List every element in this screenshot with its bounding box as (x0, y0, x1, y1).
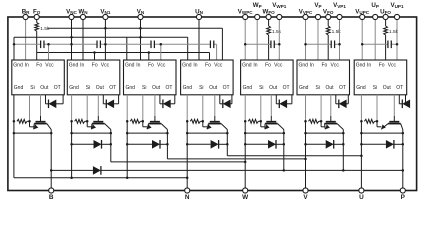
svg-text:Gnd: Gnd (242, 63, 252, 69)
brake driver gnd vertical (emitter return) (13, 95, 15, 178)
svg-text:VP: VP (314, 2, 321, 9)
N-side Vcc rail (gray) (14, 43, 217, 45)
capacitor C3 (driver3 supply) (152, 40, 154, 49)
junction supply link left (244, 43, 247, 46)
sense wire Si (gray) of driver1 (29, 95, 31, 122)
svg-text:OT: OT (339, 85, 346, 91)
terminal VN1 circle (103, 14, 108, 19)
terminal VNC circle (69, 14, 74, 19)
anode wire of freewheel diode D3 (127, 143, 152, 145)
svg-text:VUP1: VUP1 (390, 2, 404, 9)
emitter tie wire of Q6 (306, 132, 344, 134)
Fo bus corner to driver4 Fo (209, 53, 211, 61)
phase vertical from driver7 Gnd down to output terminal (360, 95, 362, 122)
terminal N (185, 188, 190, 193)
svg-text:Gnd: Gnd (299, 63, 309, 69)
svg-text:OT: OT (166, 85, 173, 91)
sense wire Si (gray) of driver2 (86, 95, 88, 122)
svg-text:1.5k: 1.5k (40, 26, 50, 32)
terminal VN circle (138, 14, 143, 19)
N-side ground rail (14, 36, 188, 38)
svg-text:OT: OT (223, 85, 230, 91)
phase rail U (Q4 collector to U terminal) (227, 155, 361, 157)
svg-text:Vcc: Vcc (214, 63, 223, 69)
resistor R1 (emitter sense shunt) (17, 119, 27, 123)
junction sense node (86, 120, 89, 123)
junction supply link left (304, 43, 307, 46)
junction shunt left (304, 120, 307, 123)
transistor Q7 (IGBT) (377, 121, 403, 129)
wire FO resistor to driver1 Fo pin (36, 31, 38, 60)
supply rail VN (N-side) (48, 27, 223, 29)
svg-text:Out: Out (152, 85, 161, 91)
wire FO terminal down to 1.5k resistor (36, 17, 38, 23)
anode wire of freewheel diode D2 (72, 143, 94, 145)
svg-text:WP: WP (253, 2, 262, 9)
svg-text:VVP1: VVP1 (333, 2, 346, 9)
svg-text:Fo: Fo (148, 63, 154, 69)
terminal VP circle (315, 14, 320, 19)
terminal VUPC circle (360, 14, 365, 19)
resistor R7 (emitter sense shunt) (364, 119, 374, 123)
emitter tie wire of Q1 (14, 132, 51, 134)
phase rail V (Q3 collector to V terminal) (167, 158, 305, 160)
diode D6a (OT clamp) under driver6 (339, 100, 347, 109)
cathode wire of freewheel diode D6 (333, 143, 343, 145)
cathode wire of freewheel diode D2 (101, 143, 111, 145)
terminal UN circle (196, 14, 201, 19)
terminal VVPC circle (303, 14, 308, 19)
collector vertical of Q7 down through P bus to P terminal (402, 130, 404, 191)
svg-text:Fo: Fo (265, 63, 271, 69)
anode wire of freewheel diode D4 (187, 143, 210, 145)
wire OT pin stub of driver2 (114, 103, 119, 105)
gnd rail corner to driver4 Gnd (187, 37, 189, 60)
wire OT pin stub of driver6 (346, 103, 348, 105)
sense wire Si (gray) of driver6 (320, 95, 322, 122)
collector vertical of Q3 down to phase rail (166, 130, 168, 159)
junction shunt left (70, 120, 73, 123)
terminal WFO circle (266, 14, 271, 19)
junction sense node (260, 120, 263, 123)
wire VUPC (gray) down to driver7 Gnd (361, 17, 363, 60)
transistor Q1 (IGBT) (30, 121, 52, 129)
gate wire Out of driver1 (40, 95, 42, 116)
N terminal drop from N bus (186, 177, 189, 180)
terminal U (359, 188, 364, 193)
capacitor C5 (driver5 bootstrap supply) (272, 40, 274, 49)
wire driver2 Out stub to OT diode (102, 95, 104, 104)
junction supply link right (278, 43, 281, 46)
junction shunt left (126, 120, 129, 123)
transistor Q5 (IGBT) (261, 121, 284, 129)
gate wire Out of driver5 (270, 95, 272, 116)
svg-text:In: In (25, 63, 29, 69)
svg-text:In: In (367, 63, 371, 69)
wire VP input (gray) to driver6 In (317, 17, 319, 60)
phase vertical from driver6 Gnd down to output terminal (305, 95, 307, 122)
terminal VWP1 circle (277, 14, 282, 19)
wire WN input to driver2 In (82, 17, 84, 60)
terminal WP circle (255, 14, 260, 19)
wire driver5 Out stub to OT diode (275, 95, 277, 104)
svg-text:Gnd: Gnd (69, 85, 79, 91)
wire VFO resistor to driver6 Fo (327, 35, 329, 60)
wire OT pin stub of driver1 (56, 103, 63, 105)
diode D7a (OT clamp) under driver7 (402, 100, 410, 109)
wire driver3 Out stub to OT diode (159, 95, 161, 104)
junction supply link left (361, 43, 364, 46)
resistor R3 (emitter sense shunt) (130, 119, 140, 123)
svg-text:Gnd: Gnd (243, 85, 253, 91)
collector vertical of Q2 down to phase rail (110, 130, 112, 162)
resistor R2 (emitter sense shunt) (75, 119, 85, 123)
svg-text:In: In (136, 63, 140, 69)
terminal VFO circle (326, 14, 331, 19)
wire VWPC (gray) down to driver5 Gnd (244, 17, 246, 60)
junction Vcc rail / VN1 (104, 43, 107, 46)
driver IC U6 box (297, 60, 350, 95)
driver IC U3 box (124, 60, 177, 95)
Fo bus stub to driver3 Fo (148, 53, 150, 61)
wire UP input (gray) to driver7 In (374, 17, 376, 60)
diode D3a (OT clamp) under driver3 (163, 100, 171, 109)
capacitor C1 (driver1 supply) (41, 40, 43, 49)
emitter tie wire of Q3 (127, 132, 167, 134)
svg-text:Vcc: Vcc (388, 63, 397, 69)
collector vertical of Q5 down to P bus (283, 130, 285, 171)
wire WFO down to 1.5k resistor (268, 17, 270, 26)
sense wire Si (gray) of driver7 (376, 95, 378, 122)
svg-text:V: V (303, 194, 308, 201)
anode wire of freewheel diode D7 (361, 143, 386, 145)
resistor R6 (emitter sense shunt) (309, 119, 319, 123)
gate wire Out of driver7 (393, 95, 395, 116)
svg-text:U: U (359, 194, 364, 201)
svg-text:Fo: Fo (322, 63, 328, 69)
wire UFO down to 1.5k resistor (385, 17, 387, 26)
sense wire Si (gray) of driver5 (260, 95, 262, 122)
wire driver4 Out stub to OT diode (219, 95, 221, 104)
wire VVPC (gray) down to driver6 Gnd (305, 17, 307, 60)
svg-text:Vcc: Vcc (157, 63, 166, 69)
svg-text:In: In (253, 63, 257, 69)
terminal WN circle (80, 14, 85, 19)
emitter tie wire of Q2 (72, 132, 111, 134)
svg-text:In: In (193, 63, 197, 69)
driver3 gnd vertical down to N bus (126, 95, 128, 122)
wire VNC to driver2 Gnd (71, 17, 73, 60)
terminal FO circle (34, 14, 39, 19)
terminal V (303, 188, 308, 193)
svg-text:Si: Si (142, 85, 146, 91)
Fo bus rail (N-side fault outputs) (37, 52, 210, 54)
Vcc rail corner (gray) to driver4 Vcc (216, 44, 218, 60)
svg-text:N: N (185, 194, 190, 201)
junction sense node (376, 120, 379, 123)
resistor R4 (emitter sense shunt) (190, 119, 200, 123)
wire OT pin stub of driver7 (406, 103, 410, 105)
N bus corner up to driver1 gnd (70, 177, 73, 180)
cathode wire of freewheel diode D7 (393, 143, 403, 145)
gnd rail corner to driver1 Gnd (13, 37, 15, 60)
terminal UP circle (373, 14, 378, 19)
junction supply link right (396, 43, 399, 46)
Fo bus stub to driver2 Fo (94, 53, 96, 61)
capacitor C2 (driver2 supply) (98, 40, 100, 49)
svg-text:OT: OT (109, 85, 116, 91)
terminal B (49, 188, 54, 193)
P bus wire from brake collector to P terminal (51, 169, 88, 171)
diode D2 (freewheel) of Q2 (94, 140, 102, 149)
gate wire Out of driver4 (214, 95, 216, 116)
diode D4 (freewheel) of Q4 (211, 140, 219, 149)
anode wire of freewheel diode D5 (245, 143, 268, 145)
svg-text:Gnd: Gnd (182, 63, 192, 69)
junction gnd rail / VNC (70, 36, 73, 39)
supply link (gray) VUP1 to VUPC (362, 43, 397, 45)
svg-text:Vcc: Vcc (101, 63, 110, 69)
terminal VUP1 circle (394, 14, 399, 19)
wire WFO resistor to driver5 Fo (268, 35, 270, 60)
emitter tie wire of Q7 (361, 132, 402, 134)
wire VFO down to 1.5k resistor (327, 17, 329, 26)
transistor Q3 (IGBT) (143, 121, 168, 129)
gate wire Out of driver6 (330, 95, 332, 116)
svg-text:Gnd: Gnd (356, 63, 366, 69)
N bus wire collecting N-side emitters (14, 177, 187, 179)
svg-text:Si: Si (373, 85, 377, 91)
resistor 1.5k on FO line (35, 23, 39, 32)
junction gnd rail / VN (139, 36, 142, 39)
diode D5 (freewheel) of Q5 (268, 140, 276, 149)
wire UFO resistor to driver7 Fo (385, 35, 387, 60)
wire VN1 to driver2 Vcc (104, 17, 106, 60)
diode D1 (brake freewheel to P) (93, 166, 101, 175)
driver IC U4 box (181, 60, 234, 95)
junction shunt left (244, 120, 247, 123)
svg-text:Vcc: Vcc (331, 63, 340, 69)
Vcc stub (gray) to driver3 Vcc (160, 44, 162, 60)
svg-text:Fo: Fo (92, 63, 98, 69)
terminal VVP1 circle (337, 14, 342, 19)
terminal UFO circle (383, 14, 388, 19)
svg-text:Gnd: Gnd (183, 85, 193, 91)
svg-text:Fo: Fo (205, 63, 211, 69)
svg-text:Out: Out (326, 85, 335, 91)
driver4 gnd vertical down to N bus (186, 95, 188, 122)
svg-text:W: W (242, 194, 249, 201)
junction shunt left (13, 120, 16, 123)
svg-text:OT: OT (54, 85, 61, 91)
phase rail W (Q2 collector to W terminal) (111, 161, 245, 163)
wire BR input (gray) to driver1 In (25, 17, 27, 60)
junction Vcc rail / VNC (70, 43, 73, 46)
resistor 1.5k on WFO line (267, 26, 271, 35)
gate wire Out of driver2 (97, 95, 99, 116)
collector vertical of Q4 down to phase rail (226, 130, 228, 156)
svg-text:Si: Si (30, 85, 34, 91)
cathode wire of freewheel diode D3 (159, 143, 167, 145)
junction sense node (28, 120, 31, 123)
supply rail corner to driver4 Vcc (221, 28, 223, 60)
transistor Q4 (IGBT) (203, 121, 228, 129)
junction supply link right (338, 43, 341, 46)
svg-text:In: In (80, 63, 84, 69)
diode D2a (OT clamp) under driver2 (106, 100, 114, 109)
junction sense node (142, 120, 145, 123)
svg-text:Si: Si (86, 85, 90, 91)
svg-text:Out: Out (209, 85, 218, 91)
svg-text:Gnd: Gnd (299, 85, 309, 91)
svg-text:Gnd: Gnd (356, 85, 366, 91)
svg-text:B: B (49, 194, 54, 201)
junction sense node (320, 120, 323, 123)
svg-text:VWP1: VWP1 (272, 2, 287, 9)
driver IC U7 box (354, 60, 407, 95)
diode D5a (OT clamp) under driver5 (279, 100, 287, 109)
wire VUP1 (gray) to driver7 Vcc (396, 17, 398, 60)
resistor 1.5k on VFO line (326, 26, 330, 35)
svg-text:Out: Out (383, 85, 392, 91)
gate wire Out of driver3 (154, 95, 156, 116)
wire OT pin stub of driver5 (287, 103, 292, 105)
svg-text:Out: Out (269, 85, 278, 91)
svg-text:In: In (310, 63, 314, 69)
svg-text:Fo: Fo (36, 63, 42, 69)
wire driver6 Out stub to OT diode (335, 95, 337, 104)
svg-text:Gnd: Gnd (69, 63, 79, 69)
sense wire Si (gray) of driver3 (142, 95, 144, 122)
svg-text:Si: Si (316, 85, 320, 91)
anode wire of freewheel diode D6 (306, 143, 326, 145)
junction Vcc rail start (13, 43, 16, 46)
svg-text:Gnd: Gnd (125, 63, 135, 69)
capacitor C6 (driver6 bootstrap supply) (332, 40, 334, 49)
wire driver1 Out stub to OT diode (45, 95, 47, 104)
wire UN input to driver4 In (198, 17, 200, 60)
cathode wire of freewheel diode D4 (218, 143, 227, 145)
svg-text:Vcc: Vcc (45, 63, 54, 69)
svg-text:Si: Si (259, 85, 263, 91)
diode D7 (freewheel) of Q7 (386, 140, 394, 149)
terminal BR circle (23, 14, 28, 19)
svg-text:Gnd: Gnd (13, 63, 23, 69)
capacitor C4 (driver4 supply) (211, 40, 213, 49)
phase vertical from driver5 Gnd down to output terminal (244, 95, 246, 122)
junction sense node (202, 120, 205, 123)
svg-text:Gnd: Gnd (126, 85, 136, 91)
svg-text:Fo: Fo (379, 63, 385, 69)
wire WP input (gray) to driver5 In (256, 17, 258, 60)
wire VN input to driver3 In (140, 17, 142, 60)
svg-text:OT: OT (396, 85, 403, 91)
driver2 gnd vertical down to N bus (71, 95, 73, 122)
svg-text:Vcc: Vcc (274, 63, 283, 69)
junction supply rail / VN line (139, 27, 142, 30)
svg-text:P: P (401, 194, 406, 201)
supply link (gray) VVP1 to VVPC (306, 43, 340, 45)
wire VVP1 (gray) to driver6 Vcc (339, 17, 341, 60)
emitter tie wire of Q5 (245, 132, 284, 134)
svg-text:Out: Out (40, 85, 49, 91)
svg-text:Gnd: Gnd (14, 85, 24, 91)
wire VWP1 (gray) to driver5 Vcc (278, 17, 280, 60)
terminal VWPC circle (243, 14, 248, 19)
diode D4a (OT clamp) under driver4 (223, 100, 231, 109)
diode D1a (OT clamp) under driver1 (49, 100, 57, 109)
brake collector vertical down to B terminal (50, 130, 52, 191)
svg-text:Out: Out (96, 85, 105, 91)
driver IC U5 box (241, 60, 294, 95)
svg-text:UP: UP (371, 2, 379, 9)
junction shunt left (360, 120, 363, 123)
terminal W (243, 188, 248, 193)
package outline border (8, 17, 417, 191)
svg-text:1.5k: 1.5k (272, 29, 282, 35)
driver IC U1 box (12, 60, 65, 95)
transistor Q2 (IGBT) (87, 121, 111, 129)
wire driver7 Out stub to OT diode (398, 95, 400, 104)
diode D3 (freewheel) of Q3 (152, 140, 160, 149)
junction supply rail / VN1 line (104, 27, 107, 30)
cathode wire of freewheel diode D5 (275, 143, 283, 145)
emitter tie wire of Q4 (187, 132, 227, 134)
wire OT pin stub of driver4 (230, 103, 232, 105)
Vcc stub (gray) to driver1 Vcc (48, 44, 50, 60)
junction shunt left (186, 120, 189, 123)
collector vertical of Q6 down to P bus (342, 130, 344, 171)
supply link (gray) VWP1 to VWPC (245, 43, 279, 45)
sense wire Si (gray) of driver4 (202, 95, 204, 122)
gnd rail stub to driver3 Gnd (126, 37, 128, 60)
svg-text:Si: Si (199, 85, 203, 91)
wire OT pin stub of driver3 (170, 103, 175, 105)
terminal P (400, 188, 405, 193)
driver IC U2 box (67, 60, 120, 95)
capacitor C7 (driver7 bootstrap supply) (389, 40, 391, 49)
transistor Q6 (IGBT) (321, 121, 343, 129)
resistor 1.5k on UFO line (384, 26, 388, 35)
resistor R5 (emitter sense shunt) (248, 119, 258, 123)
diode D6 (freewheel) of Q6 (326, 140, 334, 149)
svg-text:OT: OT (283, 85, 290, 91)
